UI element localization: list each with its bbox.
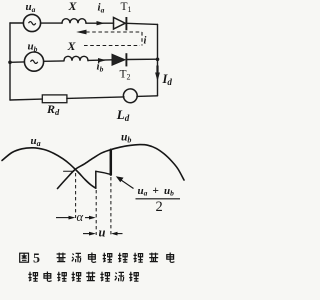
svg-text:ib: ib bbox=[97, 60, 104, 73]
svg-text:X: X bbox=[68, 0, 78, 13]
svg-text:Ld: Ld bbox=[116, 107, 130, 123]
svg-text:ua: ua bbox=[31, 135, 41, 148]
svg-text:Id: Id bbox=[162, 72, 173, 87]
svg-text:2: 2 bbox=[156, 199, 163, 215]
svg-text:ua: ua bbox=[26, 1, 36, 14]
svg-text:i: i bbox=[144, 36, 147, 47]
svg-text:ub: ub bbox=[121, 131, 131, 144]
svg-text:X: X bbox=[67, 39, 77, 53]
svg-text:u: u bbox=[99, 226, 106, 240]
svg-text:ia: ia bbox=[98, 1, 105, 14]
svg-text:α: α bbox=[77, 210, 84, 224]
svg-text:T2: T2 bbox=[120, 69, 131, 82]
svg-text:ua+ub: ua+ub bbox=[138, 185, 175, 198]
svg-text:Rd: Rd bbox=[46, 102, 60, 117]
svg-text:ub: ub bbox=[28, 40, 38, 53]
svg-text:T1: T1 bbox=[121, 1, 132, 14]
svg-text:5: 5 bbox=[33, 252, 40, 267]
